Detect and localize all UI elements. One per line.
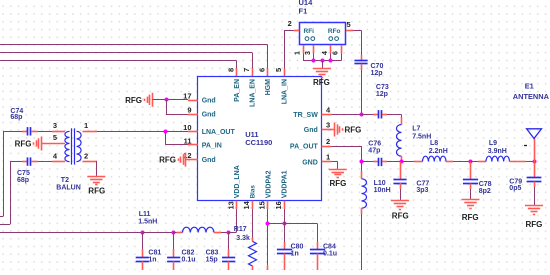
svg-text:8p2: 8p2: [479, 188, 491, 195]
svg-text:C73: C73: [376, 84, 389, 91]
svg-text:RFG: RFG: [88, 186, 105, 195]
svg-text:PA_IN: PA_IN: [202, 142, 222, 149]
svg-text:C76: C76: [368, 140, 381, 147]
svg-text:L10: L10: [374, 180, 386, 187]
svg-text:VDDPA1: VDDPA1: [282, 170, 289, 198]
svg-text:68p: 68p: [17, 177, 29, 184]
svg-text:PA_EN: PA_EN: [234, 79, 241, 102]
svg-text:16: 16: [274, 201, 283, 209]
svg-text:VDD_LNA: VDD_LNA: [234, 165, 241, 198]
svg-text:HGM: HGM: [265, 79, 272, 96]
svg-text:LNA_EN: LNA_EN: [250, 79, 257, 107]
svg-text:L7: L7: [412, 125, 420, 132]
svg-text:5: 5: [274, 68, 283, 72]
svg-text:TR_SW: TR_SW: [293, 112, 318, 119]
svg-text:0.1u: 0.1u: [182, 256, 196, 263]
svg-text:RFi: RFi: [304, 28, 315, 35]
svg-text:F1: F1: [299, 7, 308, 16]
svg-text:2: 2: [84, 151, 88, 160]
svg-text:C70: C70: [371, 63, 384, 70]
svg-text:9: 9: [187, 106, 191, 115]
svg-text:7: 7: [242, 68, 251, 72]
svg-text:GND: GND: [302, 159, 318, 166]
svg-text:1.5nH: 1.5nH: [138, 218, 157, 225]
svg-text:1n: 1n: [291, 251, 299, 258]
svg-text:L11: L11: [139, 211, 151, 218]
svg-text:PA_OUT: PA_OUT: [290, 144, 319, 151]
svg-text:RFG: RFG: [125, 96, 142, 105]
svg-text:13: 13: [226, 201, 235, 209]
svg-text:VDDPA2: VDDPA2: [265, 170, 272, 198]
svg-text:RFG: RFG: [330, 179, 347, 188]
svg-text:2.2nH: 2.2nH: [429, 148, 448, 155]
svg-text:C80: C80: [291, 244, 304, 251]
svg-text:15p: 15p: [206, 256, 218, 263]
svg-text:1n: 1n: [148, 256, 156, 263]
svg-text:0p5: 0p5: [509, 185, 521, 192]
svg-text:Gnd: Gnd: [202, 98, 216, 105]
svg-text:11: 11: [184, 136, 192, 145]
svg-text:1: 1: [295, 51, 302, 55]
svg-text:15: 15: [258, 201, 267, 209]
svg-text:T2: T2: [61, 177, 69, 184]
svg-text:C82: C82: [182, 249, 195, 256]
svg-text:RFG: RFG: [392, 211, 409, 220]
svg-text:3p3: 3p3: [416, 187, 428, 194]
svg-text:0.1u: 0.1u: [323, 251, 337, 258]
svg-text:Gnd: Gnd: [202, 157, 216, 164]
svg-text:14: 14: [242, 200, 251, 209]
svg-text:RFG: RFG: [15, 139, 32, 148]
svg-text:C81: C81: [148, 249, 161, 256]
svg-text:6: 6: [333, 51, 340, 55]
svg-text:L8: L8: [430, 140, 438, 147]
svg-text:C78: C78: [479, 181, 492, 188]
svg-text:10nH: 10nH: [374, 187, 391, 194]
svg-text:Gnd: Gnd: [202, 112, 216, 119]
svg-text:R17: R17: [234, 226, 247, 233]
svg-text:3.9nH: 3.9nH: [488, 148, 507, 155]
svg-text:LNA_OUT: LNA_OUT: [202, 129, 236, 136]
svg-text:1: 1: [326, 153, 330, 162]
svg-text:5: 5: [347, 20, 351, 29]
svg-text:2: 2: [326, 137, 330, 146]
svg-text:ANTENNA: ANTENNA: [513, 92, 550, 101]
svg-text:2: 2: [288, 19, 292, 28]
svg-text:6: 6: [258, 68, 267, 72]
svg-text:68p: 68p: [10, 114, 22, 121]
svg-text:7.5nH: 7.5nH: [412, 133, 431, 140]
svg-text:RFG: RFG: [313, 78, 330, 87]
svg-text:BALUN: BALUN: [56, 184, 81, 191]
svg-text:3: 3: [305, 51, 312, 55]
svg-text:8: 8: [227, 68, 236, 72]
svg-text:12p: 12p: [371, 70, 383, 77]
svg-text:10: 10: [183, 123, 191, 132]
svg-text:4: 4: [322, 51, 329, 55]
svg-text:3: 3: [326, 121, 330, 130]
svg-text:12p: 12p: [376, 91, 388, 98]
svg-text:3: 3: [53, 121, 57, 130]
svg-text:L9: L9: [489, 140, 497, 147]
svg-text:47p: 47p: [368, 147, 380, 154]
svg-text:RFG: RFG: [345, 126, 362, 135]
svg-text:RFG: RFG: [462, 213, 479, 222]
svg-text:E1: E1: [525, 81, 534, 90]
svg-text:RFG: RFG: [159, 156, 176, 165]
svg-text:RFo: RFo: [328, 28, 341, 35]
svg-text:Gnd: Gnd: [304, 127, 318, 134]
svg-text:LNA_IN: LNA_IN: [282, 79, 289, 104]
svg-text:RFG: RFG: [526, 220, 543, 229]
svg-text:Bias: Bias: [250, 185, 257, 199]
svg-text:5: 5: [53, 133, 57, 142]
svg-text:C75: C75: [17, 170, 30, 177]
svg-text:C84: C84: [323, 244, 336, 251]
svg-text:1: 1: [84, 121, 88, 130]
svg-text:3.3k: 3.3k: [236, 235, 250, 242]
svg-text:CC1190: CC1190: [245, 138, 272, 147]
svg-text:C83: C83: [206, 249, 219, 256]
